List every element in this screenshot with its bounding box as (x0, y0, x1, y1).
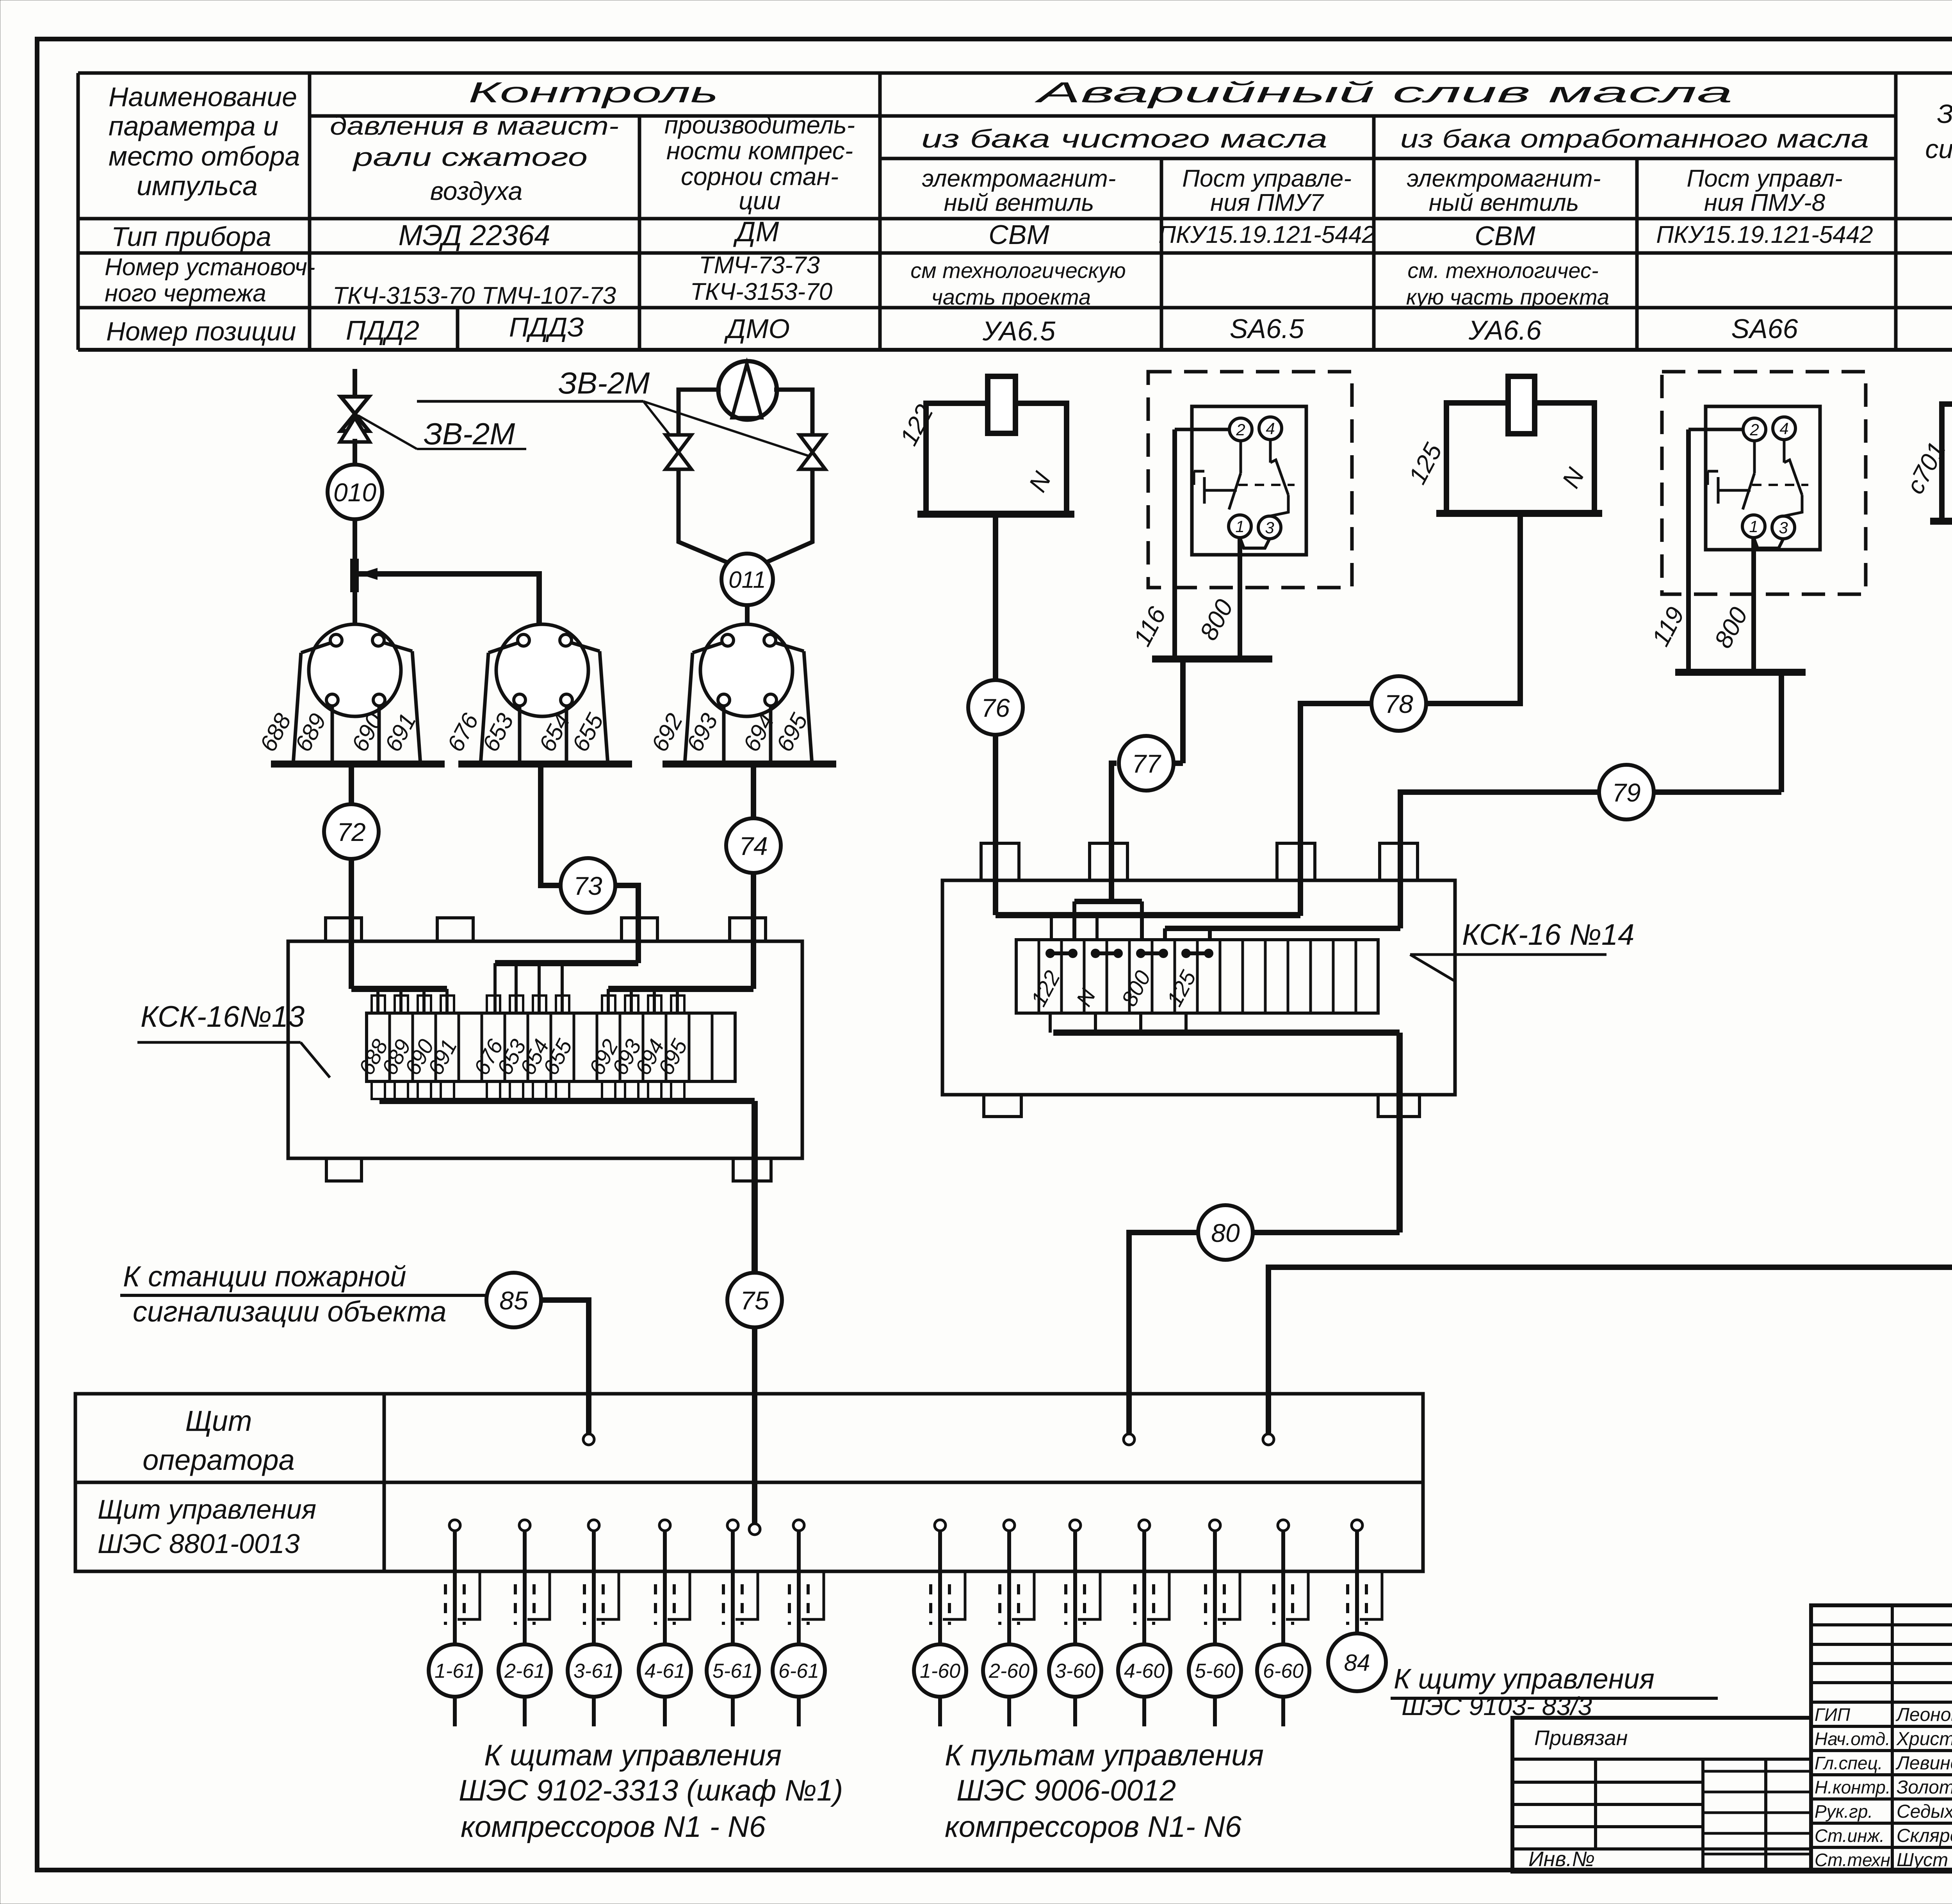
ПМУ-8 pin 2 (1743, 418, 1766, 441)
cable circle 72 (324, 804, 379, 859)
instrument circle 010 (328, 465, 382, 519)
cable 74 wire upper (751, 764, 756, 818)
label Щит управления ШЭС 8801-0013 (98, 1494, 316, 1559)
label КСК-16№13 with leader (137, 1000, 330, 1078)
cable 85 wire (541, 1300, 589, 1434)
impulse tap symbol (351, 559, 377, 592)
svg-text:кую часть проекта: кую часть проекта (1406, 285, 1609, 309)
svg-text:78: 78 (1384, 689, 1413, 718)
cable circle 73 (561, 858, 615, 913)
svg-text:1-60: 1-60 (920, 1660, 960, 1683)
bus of cable 72 to terminals 688-691 (351, 989, 447, 1013)
svg-text:2-60: 2-60 (988, 1660, 1029, 1683)
svg-text:импульса: импульса (137, 171, 258, 201)
svg-text:Н.контр.: Н.контр. (1815, 1777, 1891, 1797)
wire 010 to connector X1 (353, 519, 357, 625)
cable 80 wire right (1253, 1230, 1400, 1235)
svg-text:ГИП: ГИП (1815, 1705, 1850, 1725)
connector X1 (688-691) (271, 624, 445, 764)
svg-text:Звуковая: Звуковая (1937, 99, 1952, 129)
svg-text:Наименование: Наименование (109, 82, 297, 112)
terminal point cable 83 (1263, 1434, 1274, 1445)
svg-text:ного чертежа: ного чертежа (105, 280, 266, 307)
svg-text:ШЭС 9102-3313 (шкаф №1): ШЭС 9102-3313 (шкаф №1) (459, 1774, 843, 1807)
svg-text:ный вентиль: ный вентиль (1429, 189, 1579, 216)
svg-text:ДМ: ДМ (733, 216, 779, 248)
svg-text:SА6.5: SА6.5 (1230, 313, 1305, 344)
terminal strip of КСК-16 №13 (354, 996, 735, 1099)
svg-text:011: 011 (728, 567, 766, 593)
svg-text:5-60: 5-60 (1195, 1660, 1235, 1683)
cable 78 wire from box 125 (1426, 513, 1520, 704)
svg-text:сигнализации объекта: сигнализации объекта (133, 1295, 447, 1328)
svg-text:Левинский: Левинский (1895, 1753, 1952, 1774)
svg-text:СВМ: СВМ (1475, 221, 1535, 251)
svg-text:2: 2 (1749, 420, 1759, 439)
svg-text:ния ПМУ-8: ния ПМУ-8 (1704, 189, 1826, 216)
svg-text:Золотарева: Золотарева (1897, 1777, 1952, 1798)
svg-text:4: 4 (1266, 419, 1275, 438)
wire 800 (ПМУ-8) (1751, 538, 1756, 672)
terminal box КСК-16 №13 (288, 918, 802, 1181)
N bus (cables 76/78) (996, 915, 1300, 940)
svg-text:5-61: 5-61 (712, 1660, 753, 1683)
wire labels 676 653 654 655 (442, 709, 608, 756)
table header texts (109, 76, 1952, 216)
svg-text:4-61: 4-61 (645, 1660, 685, 1683)
svg-text:ДМО: ДМО (724, 313, 790, 344)
cable 80 wire left (1129, 1233, 1198, 1434)
impulse pipe to connector X2 (358, 574, 539, 624)
svg-text:ния ПМУ7: ния ПМУ7 (1210, 189, 1324, 216)
svg-text:ный вентиль: ный вентиль (944, 189, 1094, 216)
svg-text:К щиту управления: К щиту управления (1394, 1664, 1655, 1695)
svg-text:из бака отработанного масла: из бака отработанного масла (1400, 124, 1869, 153)
svg-text:Гл.спец.: Гл.спец. (1815, 1753, 1883, 1773)
ground bar ПМУ-8 (1675, 669, 1806, 676)
svg-text:76: 76 (981, 693, 1010, 722)
svg-text:Рук.гр.: Рук.гр. (1815, 1801, 1873, 1822)
ПМУ7 switch contacts (1194, 440, 1295, 548)
svg-text:1: 1 (1235, 517, 1244, 536)
terminal box КСК-16 №14 (942, 843, 1455, 1117)
cable 77 riser (1180, 659, 1186, 763)
svg-text:КСК-16№13: КСК-16№13 (141, 1000, 305, 1033)
cable circle 75 (727, 1273, 782, 1327)
cable circles 1-60 .. 6-60 (914, 1644, 1309, 1726)
title block grid (1512, 1605, 1952, 1872)
wire 800 (ПМУ7) (1238, 538, 1242, 659)
label К станции пожарной сигнализации объекта (120, 1260, 485, 1328)
cable 83 long wire to control panel (1268, 1250, 1952, 1434)
svg-text:4: 4 (1779, 419, 1788, 438)
svg-text:Пост управле-: Пост управле- (1182, 165, 1352, 192)
label ЗВ-2М (compressor) with leader (417, 366, 809, 456)
svg-text:УА6.5: УА6.5 (982, 316, 1056, 346)
cable circle 76 (968, 680, 1023, 735)
svg-text:см. технологичес-: см. технологичес- (1407, 258, 1598, 283)
control post ПМУ-8 (dashed) (1662, 372, 1866, 594)
terminal point cable 85 (583, 1434, 594, 1445)
svg-text:Шуст: Шуст (1897, 1850, 1948, 1870)
cable 72 wire upper (349, 764, 354, 804)
connector X3 (692-695) (663, 624, 836, 764)
svg-text:ПКУ15.19.121-5442: ПКУ15.19.121-5442 (1656, 221, 1873, 248)
svg-text:УА6.6: УА6.6 (1468, 315, 1541, 346)
svg-text:см технологическую: см технологическую (910, 258, 1126, 283)
svg-text:84: 84 (1344, 1650, 1370, 1676)
svg-text:Контроль: Контроль (468, 76, 718, 109)
svg-text:ШЭС 9006-0012: ШЭС 9006-0012 (956, 1774, 1176, 1807)
svg-text:давления в магист-: давления в магист- (330, 111, 619, 140)
cable 77 wire right (1174, 761, 1183, 766)
svg-text:6-60: 6-60 (1263, 1660, 1304, 1683)
svg-text:Номер установоч-: Номер установоч- (105, 254, 315, 281)
ПМУ7 pin 3 (1258, 516, 1281, 539)
label ЗВ-2М (left) with leader (358, 415, 526, 451)
svg-text:параметра и: параметра и (109, 111, 278, 141)
cable circle 74 (726, 818, 781, 873)
svg-text:79: 79 (1612, 778, 1640, 807)
jumpers on strip КСК-16 №14 (1046, 949, 1213, 958)
svg-text:ПДД2: ПДД2 (346, 315, 419, 346)
svg-text:3: 3 (1779, 518, 1788, 537)
svg-text:часть проекта: часть проекта (931, 285, 1091, 309)
svg-text:оператора: оператора (142, 1444, 295, 1476)
svg-text:ПДДЗ: ПДДЗ (509, 312, 584, 342)
svg-text:1: 1 (1749, 517, 1758, 536)
bus of cable 73 to terminals 676-655 (495, 963, 638, 1013)
svg-text:СВМ: СВМ (988, 219, 1049, 250)
svg-text:Инв.№: Инв.№ (1528, 1847, 1595, 1871)
svg-text:6-61: 6-61 (778, 1660, 819, 1683)
left valve ЗВ-2М (666, 435, 691, 469)
terminal point cable 80 (1124, 1434, 1135, 1445)
terminal strip of КСК-16 №14 (1016, 940, 1378, 1013)
svg-text:77: 77 (1132, 749, 1161, 778)
right valve ЗВ-2М (800, 435, 825, 469)
cable 79 riser (1779, 672, 1784, 792)
svg-text:ции: ции (739, 187, 781, 215)
svg-text:компрессоров N1 - N6: компрессоров N1 - N6 (461, 1810, 766, 1843)
cable 78 wire lower (1300, 704, 1371, 916)
wire 116 (1175, 429, 1229, 659)
svg-text:3: 3 (1265, 518, 1274, 537)
svg-text:производитель-: производитель- (664, 111, 855, 139)
svg-text:010: 010 (333, 478, 376, 507)
cable 79 wire lower (1400, 792, 1599, 928)
svg-text:3-61: 3-61 (573, 1660, 614, 1683)
svg-text:80: 80 (1211, 1218, 1240, 1247)
label Щит оператора (142, 1405, 295, 1476)
cable 76 wire upper (993, 514, 998, 680)
svg-text:Щит управления: Щит управления (98, 1494, 316, 1525)
cable circle 78 (1371, 676, 1426, 731)
cable circle 79 (1599, 765, 1654, 819)
svg-text:Пост управл-: Пост управл- (1687, 165, 1842, 192)
svg-text:К пультам управления: К пультам управления (945, 1739, 1264, 1772)
svg-text:Нач.отд.: Нач.отд. (1815, 1729, 1890, 1749)
svg-text:Номер позиции: Номер позиции (106, 317, 296, 346)
svg-text:КСК-16 №14: КСК-16 №14 (1462, 918, 1634, 951)
svg-text:ЗВ-2М: ЗВ-2М (424, 417, 515, 451)
wire labels 688 689 690 691 (255, 709, 421, 756)
svg-text:К станции пожарной: К станции пожарной (123, 1260, 406, 1293)
svg-text:Щит: Щит (185, 1405, 252, 1437)
svg-text:2: 2 (1236, 420, 1245, 439)
cable circles 1-61 .. 6-61 (429, 1644, 825, 1726)
svg-text:компрессоров N1- N6: компрессоров N1- N6 (945, 1810, 1242, 1843)
svg-text:К щитам управления: К щитам управления (484, 1739, 782, 1772)
svg-text:Привязан: Привязан (1534, 1726, 1628, 1750)
parameter table grid (78, 73, 1952, 350)
ПМУ7 pin 1 (1229, 515, 1251, 538)
row: Номер установочного чертежа (105, 252, 1952, 309)
svg-text:воздуха: воздуха (430, 176, 523, 205)
svg-text:73: 73 (573, 871, 602, 900)
wire 119 (1688, 429, 1743, 672)
svg-text:Седых: Седых (1897, 1801, 1952, 1822)
cable circle 85 (486, 1273, 541, 1327)
row: Номер позиции (106, 312, 1952, 346)
svg-text:75: 75 (740, 1286, 769, 1315)
svg-text:72: 72 (337, 818, 365, 846)
siren box (audible alarm) (1930, 377, 1952, 521)
ПМУ-8 pin 4 (1773, 417, 1795, 440)
ground bar ПМУ7 (1152, 655, 1272, 663)
wire 011 to connector X3 (745, 605, 750, 625)
cable circle 77 (1119, 736, 1174, 791)
wire valve to 010 (353, 439, 357, 465)
svg-text:Аварийный слив масла: Аварийный слив масла (1034, 76, 1733, 109)
svg-text:2-61: 2-61 (504, 1660, 545, 1683)
cable 75 wire to control panel (752, 1327, 757, 1525)
left pipe lower (679, 470, 747, 571)
svg-text:сигнализа-: сигнализа- (1925, 134, 1952, 164)
solenoid valve box 125 (1436, 376, 1602, 513)
panel output wires with shield marks (445, 1520, 1382, 1645)
svg-text:SА66: SА66 (1731, 313, 1798, 344)
svg-text:1-61: 1-61 (435, 1660, 475, 1683)
svg-text:85: 85 (499, 1286, 528, 1315)
panel box Щит оператора / Щит управления (75, 1394, 1423, 1571)
svg-text:4-60: 4-60 (1124, 1660, 1165, 1683)
svg-text:ЗВ-2М: ЗВ-2М (558, 366, 650, 400)
row: Тип прибора (111, 216, 1952, 252)
bus of cable 74 to terminals 692-695 (608, 989, 753, 1013)
label К щиту управления ШЭС 9103-83/3 (1391, 1664, 1718, 1721)
svg-text:из бака чистого масла: из бака чистого масла (921, 124, 1327, 153)
title block signature texts (1815, 1701, 1952, 1870)
right pipe of compressor (774, 390, 812, 434)
valve ЗВ-2М (left) (340, 397, 370, 442)
terminal point cable 75 (749, 1524, 760, 1535)
svg-text:ности компрес-: ности компрес- (666, 137, 853, 165)
svg-text:Христофоров: Христофоров (1896, 1729, 1952, 1749)
svg-text:Склярова: Склярова (1897, 1826, 1952, 1846)
svg-text:Ст.техн.: Ст.техн. (1815, 1850, 1895, 1870)
cable 77 wire lower (1111, 763, 1117, 901)
svg-text:Леонов: Леонов (1895, 1705, 1952, 1725)
cable 73 wire upper (541, 764, 561, 885)
control post ПМУ7 (dashed) (1148, 372, 1352, 588)
cable circle 84 (1328, 1633, 1386, 1691)
impulse line from main (353, 369, 357, 396)
ПМУ-8 pin 3 (1772, 516, 1795, 539)
ПМУ7 pin 2 (1229, 418, 1252, 441)
cable 77 bus fork (1074, 901, 1142, 940)
ПМУ-8 pin 1 (1742, 515, 1765, 538)
svg-text:рали сжатого: рали сжатого (352, 142, 588, 171)
svg-text:ТМЧ-73-73: ТМЧ-73-73 (699, 252, 820, 279)
label КСК-16 №14 with leader (1410, 918, 1634, 982)
cable 79 bus fork (1165, 928, 1400, 940)
solenoid valve box 122 (917, 376, 1074, 514)
svg-text:ПКУ15.19.121-5442: ПКУ15.19.121-5442 (1158, 221, 1375, 248)
connector X2 (676-655) (458, 624, 632, 764)
label К щитам управления ШЭС 9102-3313 (459, 1739, 843, 1843)
cable circle 80 (1198, 1205, 1253, 1260)
cable 72 wire lower (349, 859, 354, 989)
label К пультам управления ШЭС 9006-0012 (945, 1739, 1264, 1843)
svg-text:74: 74 (739, 832, 768, 860)
svg-text:Тип прибора: Тип прибора (111, 221, 271, 252)
bottom stubs and output bus of КСК-16 №14 (1050, 1013, 1400, 1233)
ПМУ7 pin 4 (1259, 417, 1282, 440)
svg-text:ТКЧ-3153-70 ТМЧ-107-73: ТКЧ-3153-70 ТМЧ-107-73 (333, 282, 616, 309)
svg-text:электромагнит-: электромагнит- (922, 165, 1116, 192)
wire labels 692 693 694 695 (646, 709, 812, 756)
svg-text:3-60: 3-60 (1055, 1660, 1095, 1683)
svg-text:МЭД 22364: МЭД 22364 (399, 219, 550, 251)
svg-text:Ст.инж.: Ст.инж. (1815, 1826, 1884, 1846)
instrument circle 011 (721, 554, 773, 605)
svg-text:ТКЧ-3153-70: ТКЧ-3153-70 (690, 278, 832, 305)
cable 76 wire lower (993, 735, 998, 915)
cable 74 wire lower (751, 873, 756, 989)
svg-text:ШЭС 8801-0013: ШЭС 8801-0013 (98, 1528, 300, 1559)
left pipe of compressor (679, 390, 721, 434)
output bus of КСК-16 №13 to cable 75 (379, 1101, 755, 1273)
ПМУ-8 switch contacts (1708, 440, 1808, 548)
svg-text:место отбора: место отбора (109, 141, 300, 171)
cable 73 wire lower (615, 885, 638, 963)
cable 79 wire right (1654, 789, 1781, 795)
svg-text:электромагнит-: электромагнит- (1407, 165, 1601, 192)
right pipe lower (747, 470, 812, 571)
compressor symbol (718, 361, 777, 420)
